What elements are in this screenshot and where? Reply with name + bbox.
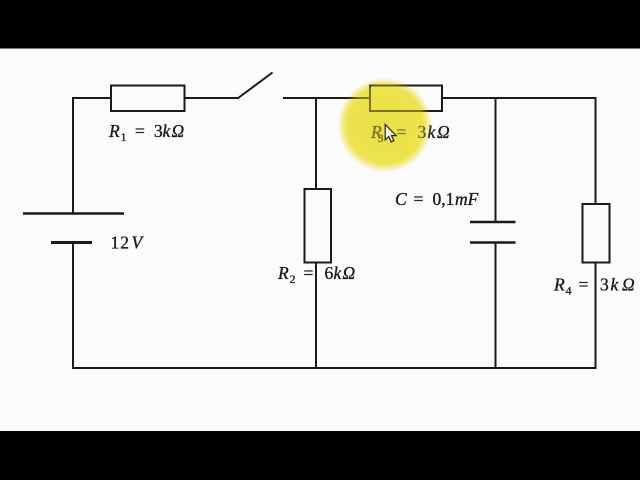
battery V1 long plate (23, 212, 124, 215)
cursor highlight spot (lighten lines layer) (338, 78, 432, 172)
mouse cursor pointer (385, 125, 396, 142)
svg-text:mF: mF (455, 189, 479, 209)
svg-text:=: = (135, 121, 145, 141)
label battery voltage 12V (111, 233, 145, 253)
wire left vertical upper (to battery +) (72, 97, 74, 213)
wire R4 to bottom-right corner (595, 263, 597, 370)
battery V1 short plate (51, 241, 92, 244)
svg-text:R: R (277, 263, 289, 283)
svg-text:=: = (304, 263, 314, 283)
wire right vertical upper (to R4) (595, 97, 597, 205)
letterbox top bar (0, 0, 640, 49)
svg-text:0,1: 0,1 (433, 189, 455, 209)
svg-text:k: k (611, 275, 620, 295)
svg-text:k: k (334, 263, 343, 283)
svg-text:C: C (395, 189, 407, 209)
svg-text:1: 1 (121, 130, 127, 144)
cursor highlight spot (multiply layer) (338, 78, 432, 172)
wire R1 to switch (185, 97, 239, 99)
svg-text:12: 12 (111, 233, 131, 253)
label R2 value (277, 263, 356, 286)
resistor R3 (370, 86, 442, 112)
capacitor C1 top plate (470, 221, 516, 224)
svg-text:Ω: Ω (437, 122, 450, 142)
svg-text:Ω: Ω (343, 263, 356, 283)
svg-text:Ω: Ω (172, 121, 185, 141)
svg-text:4: 4 (566, 284, 572, 298)
switch S1 blade (open) (238, 73, 273, 99)
label capacitor value (395, 189, 479, 209)
svg-text:Ω: Ω (622, 275, 635, 295)
resistor R2 (305, 189, 332, 263)
wire R2 to bottom (315, 263, 317, 369)
wire top-left horizontal (node to R1) (72, 97, 112, 99)
wire R3 to top-right corner (442, 97, 596, 99)
svg-text:2: 2 (290, 272, 296, 286)
label R1 value (108, 121, 185, 144)
svg-text:R: R (108, 121, 120, 141)
svg-text:3: 3 (600, 275, 609, 295)
letterbox bottom bar (0, 431, 640, 480)
node B junction to capacitor (495, 98, 497, 222)
capacitor C1 bottom plate (470, 241, 516, 244)
resistor R4 (583, 204, 610, 263)
label R3 value (370, 122, 450, 145)
svg-text:=: = (414, 189, 424, 209)
svg-text:=: = (579, 275, 589, 295)
wire bottom horizontal (72, 367, 597, 369)
wire switch to node A (283, 97, 371, 99)
label R4 value (553, 275, 635, 298)
wire left vertical lower (battery - to bottom) (72, 244, 74, 369)
svg-text:6: 6 (325, 263, 334, 283)
wire capacitor to bottom (495, 243, 497, 369)
svg-text:R: R (553, 275, 565, 295)
resistor R1 (111, 86, 185, 112)
node A junction to R2 (315, 98, 317, 190)
svg-text:k: k (163, 121, 172, 141)
